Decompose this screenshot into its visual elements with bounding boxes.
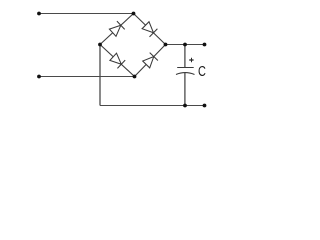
wire bridge edge top-right bbox=[134, 14, 166, 45]
terminal dot output plus bbox=[203, 43, 207, 47]
wire bridge edge left-top bbox=[100, 14, 134, 45]
diode D1 (left-to-top arm) bbox=[109, 21, 124, 36]
wire capacitor bottom lead bbox=[184, 73, 186, 106]
capacitor C bbox=[176, 68, 195, 75]
svg-text:C: C bbox=[198, 62, 206, 79]
node dot bridge top bbox=[132, 12, 136, 16]
wire bottom input bbox=[39, 76, 135, 78]
node dot bridge right bbox=[164, 43, 168, 47]
node dot bridge bottom bbox=[133, 75, 137, 79]
junction dot capacitor bottom bbox=[183, 104, 187, 108]
wire bottom rail bbox=[100, 105, 205, 107]
junction dot capacitor top bbox=[183, 43, 187, 47]
wire bridge edge bottom-right bbox=[135, 45, 166, 77]
diode D3 (left-to-bottom arm) bbox=[110, 53, 125, 68]
wire left node to bottom rail bbox=[99, 45, 101, 106]
wire top input bbox=[39, 13, 134, 15]
terminal dot output minus bbox=[203, 104, 207, 108]
wire right node to positive output bbox=[166, 44, 205, 46]
terminal dot bottom-left input bbox=[37, 75, 41, 79]
capacitor plus sign bbox=[189, 58, 193, 62]
wire bridge edge left-bottom bbox=[100, 45, 135, 77]
diode D2 (top-to-right arm) bbox=[142, 22, 157, 37]
diode D4 (bottom-to-right arm) bbox=[143, 53, 158, 68]
node dot bridge left bbox=[98, 43, 102, 47]
terminal dot top-left input bbox=[37, 12, 41, 16]
wire capacitor top lead bbox=[184, 45, 186, 68]
